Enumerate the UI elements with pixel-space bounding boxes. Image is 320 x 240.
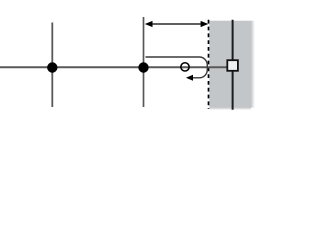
dimension arrowhead left	[145, 21, 153, 27]
left vertical line	[51, 23, 53, 108]
anchor square on wall	[227, 60, 238, 71]
hook arrowhead	[186, 75, 193, 81]
dimension line	[148, 23, 205, 25]
wall band right soft edge	[251, 21, 255, 108]
middle vertical line	[143, 17, 145, 107]
dashed boundary line	[208, 20, 210, 109]
middle bead (filled dot)	[138, 62, 148, 72]
wall band bottom soft edge	[209, 108, 251, 110]
hook return arrow curve	[146, 57, 208, 78]
main horizontal string line	[0, 66, 227, 68]
open circle on string	[181, 63, 189, 71]
dimension arrowhead right	[201, 21, 209, 27]
wall inner vertical line	[232, 20, 234, 110]
left bead (filled dot)	[47, 62, 57, 72]
wall shaded band	[209, 21, 251, 108]
